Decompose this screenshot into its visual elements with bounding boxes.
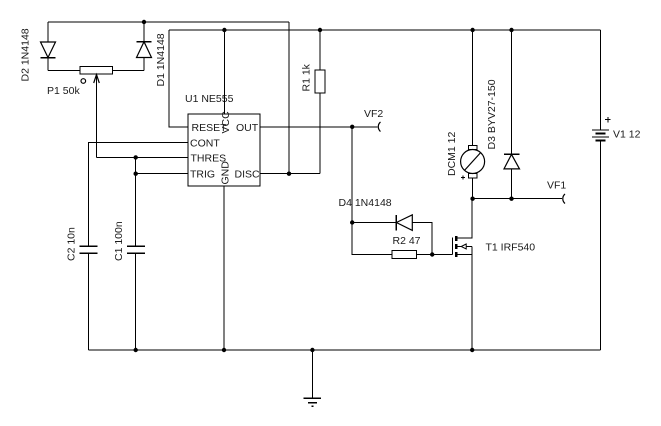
svg-text:DCM1 12: DCM1 12 bbox=[446, 131, 458, 176]
wire rail B y30 from RESET corner to battery corner bbox=[169, 29, 601, 31]
wire OUT pin to VF2 terminal bbox=[260, 126, 378, 128]
label VF1 bbox=[547, 180, 566, 192]
capacitor C1 100n bbox=[127, 246, 145, 350]
label V1 12 bbox=[613, 129, 641, 141]
wire D4 junction down to R2 level bbox=[352, 223, 392, 255]
label P1 50k bbox=[47, 85, 80, 97]
label DCM1 12 bbox=[446, 131, 458, 176]
wire TRIG pin bbox=[136, 173, 188, 175]
label D2 1N4148 bbox=[20, 28, 32, 81]
svg-text:D1 1N4148: D1 1N4148 bbox=[155, 33, 167, 86]
node OUT / D4 junction bbox=[350, 125, 354, 129]
node ground / bottom rail bbox=[310, 348, 314, 352]
label VF2 bbox=[364, 108, 383, 120]
label pin RESET bbox=[192, 122, 228, 134]
wire DISC pin bbox=[260, 173, 320, 175]
label R1 1k bbox=[301, 63, 313, 91]
label pin THRES bbox=[191, 152, 227, 164]
wire GND pin down to bottom rail bbox=[223, 186, 225, 350]
wire THRES pin to pot wiper bbox=[97, 156, 189, 158]
label T1 IRF540 bbox=[486, 242, 536, 254]
terminal VF1 bbox=[563, 194, 565, 204]
svg-text:R1 1k: R1 1k bbox=[301, 63, 313, 91]
wire VF1 rail bbox=[473, 198, 562, 200]
node GND pin / bottom rail bbox=[222, 348, 226, 352]
wire THRES-TRIG junction down to C1 bbox=[135, 157, 137, 246]
svg-text:TRIG: TRIG bbox=[190, 169, 215, 181]
label C2 10n bbox=[66, 227, 78, 261]
svg-text:D2 1N4148: D2 1N4148 bbox=[20, 28, 32, 81]
ground bbox=[304, 350, 321, 406]
svg-text:VF2: VF2 bbox=[364, 108, 383, 120]
label pin CONT bbox=[190, 138, 220, 150]
wire CONT pin left then down to C2 bbox=[89, 143, 189, 247]
wire bottom rail bbox=[89, 349, 601, 351]
label pin TRIG bbox=[190, 169, 215, 181]
node rail A / D1 junction bbox=[142, 20, 146, 24]
wire OUT junction down to D4 bbox=[351, 127, 353, 223]
node T1 source / bottom rail bbox=[470, 348, 474, 352]
label pin OUT bbox=[236, 122, 259, 134]
terminal VF2 bbox=[378, 122, 380, 132]
node THRES junction bbox=[134, 155, 138, 159]
label U1 NE555 bbox=[185, 93, 234, 105]
wire vertical x289 from rail A down to DISC bbox=[288, 22, 290, 174]
svg-text:VCC: VCC bbox=[220, 111, 232, 134]
svg-text:DISC: DISC bbox=[235, 169, 261, 181]
svg-text:D4 1N4148: D4 1N4148 bbox=[339, 197, 392, 209]
transistor T1 IRF540 bbox=[453, 199, 473, 350]
node C1 / bottom rail bbox=[134, 348, 138, 352]
node rail B / D3 junction bbox=[509, 28, 513, 32]
label R2 47 bbox=[393, 235, 421, 247]
node rail B / motor junction bbox=[470, 28, 474, 32]
node rail B / R1 junction bbox=[318, 28, 322, 32]
svg-text:VF1: VF1 bbox=[547, 180, 566, 192]
label pin GND bbox=[220, 161, 232, 185]
diode D2 1N4148 bbox=[41, 22, 56, 70]
label pin DISC bbox=[235, 169, 261, 181]
diode D1 1N4148 bbox=[137, 22, 152, 70]
svg-text:D3 BYV27-150: D3 BYV27-150 bbox=[486, 79, 498, 149]
label D1 1N4148 bbox=[155, 33, 167, 86]
svg-text:CONT: CONT bbox=[190, 138, 220, 150]
svg-text:R2 47: R2 47 bbox=[393, 235, 421, 247]
label D3 BYV27-150 bbox=[486, 79, 498, 149]
diode D4 1N4148 bbox=[352, 215, 432, 255]
label pin VCC bbox=[220, 111, 232, 134]
svg-text:U1 NE555: U1 NE555 bbox=[185, 93, 234, 105]
svg-text:C1 100n: C1 100n bbox=[113, 221, 125, 261]
capacitor C2 10n bbox=[80, 246, 98, 350]
wire VCC pin to rail B bbox=[223, 30, 225, 114]
wire top rail A from D2 to corner x289 bbox=[48, 21, 289, 23]
label D4 1N4148 bbox=[339, 197, 392, 209]
motor DCM1 12 bbox=[461, 30, 485, 199]
resistor R2 47 bbox=[392, 251, 453, 259]
svg-text:GND: GND bbox=[220, 161, 232, 185]
battery V1 12 bbox=[592, 30, 611, 350]
node D3 / VF1 junction bbox=[509, 197, 513, 201]
resistor R1 1k bbox=[315, 30, 325, 174]
svg-text:T1 IRF540: T1 IRF540 bbox=[486, 242, 536, 254]
diode D3 BYV27-150 bbox=[504, 30, 520, 199]
wire RESET pin to rail B bbox=[169, 30, 188, 127]
node drain / motor / VF1 junction bbox=[470, 197, 474, 201]
svg-text:OUT: OUT bbox=[236, 122, 259, 134]
svg-text:V1 12: V1 12 bbox=[613, 129, 641, 141]
potentiometer P1 50k bbox=[48, 67, 144, 158]
label C1 100n bbox=[113, 221, 125, 261]
node rail B / VCC junction bbox=[222, 28, 226, 32]
svg-text:P1 50k: P1 50k bbox=[47, 85, 80, 97]
op-amp U1 NE555 box bbox=[188, 114, 260, 186]
svg-text:C2 10n: C2 10n bbox=[66, 227, 78, 261]
node D4 left junction bbox=[350, 220, 354, 224]
node R2 / gate junction bbox=[430, 252, 434, 256]
node TRIG junction bbox=[134, 172, 138, 176]
node DISC junction bbox=[287, 172, 291, 176]
